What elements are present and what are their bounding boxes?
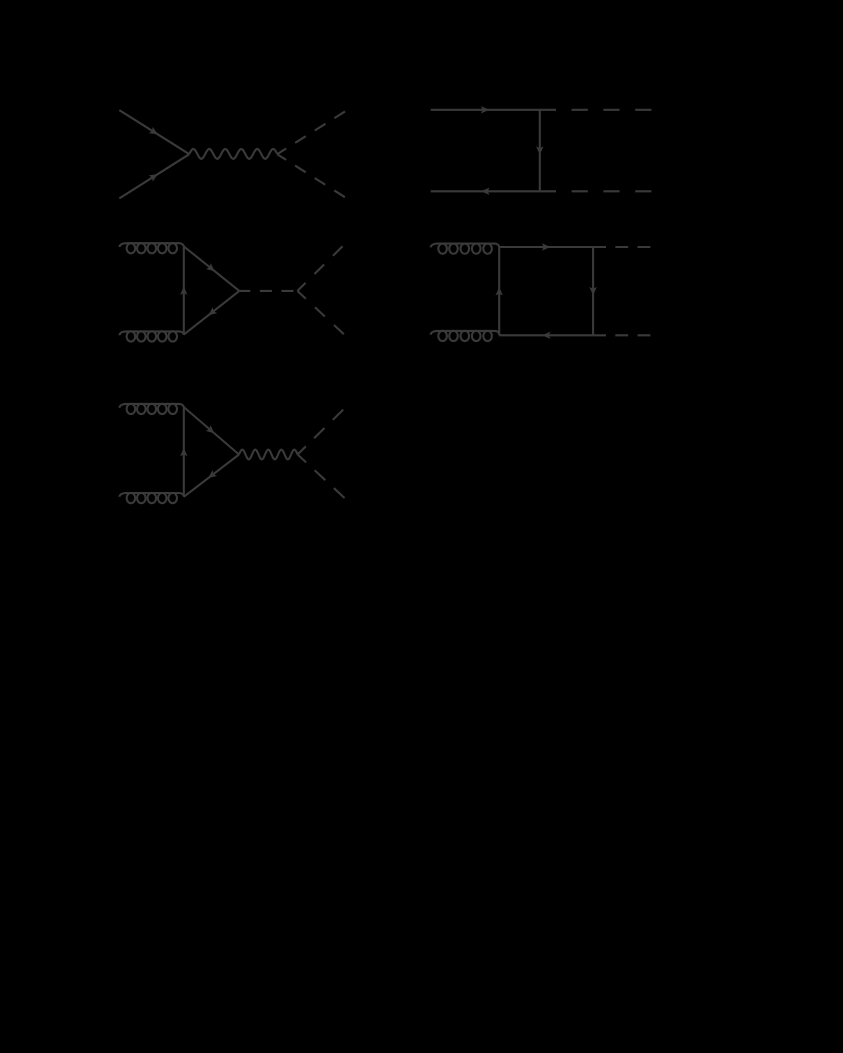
D5 arrow on top loop edge [206, 425, 217, 436]
D4 top gluon [431, 244, 500, 254]
D2 internal fermion vertical [539, 110, 541, 192]
D1 incoming fermion top [119, 110, 189, 154]
D4 dashed scalar top [593, 246, 651, 248]
D3 dashed Higgs propagator [239, 290, 297, 292]
D5 arrow on bottom loop edge [206, 470, 217, 481]
D5 top gluon [120, 404, 184, 414]
D4 box bottom quark line [499, 334, 593, 336]
D4 dashed scalar bottom [593, 334, 651, 336]
D4 bottom gluon [431, 331, 500, 341]
D3 arrow on bottom loop edge [206, 307, 217, 318]
D4 box left quark line [498, 247, 500, 335]
D3 quark loop top edge [184, 246, 240, 291]
D5 dashed scalar upper-right [298, 406, 347, 455]
D5 bottom gluon [120, 493, 184, 503]
D3 arrow on vertical quark line [180, 287, 187, 295]
D2 top incoming fermion [431, 109, 540, 111]
D5 dashed scalar lower-right [298, 455, 347, 500]
D2 dashed scalar top [540, 109, 652, 111]
D3 arrow on top loop edge [206, 263, 217, 274]
D4 arrow on right vertical [589, 287, 596, 295]
D3 top gluon [120, 243, 184, 253]
D4 arrow on left vertical [496, 287, 503, 295]
D5 quark loop top edge [184, 407, 239, 455]
D1 dashed scalar lower-right [277, 154, 347, 198]
D5 quark loop vertical [183, 407, 185, 497]
D4 box right quark line [592, 247, 594, 335]
D4 arrow on bottom quark line [542, 332, 550, 339]
D2 dashed scalar bottom [540, 190, 652, 192]
D2 bottom incoming fermion [431, 190, 540, 192]
D1 incoming fermion bottom [119, 154, 189, 198]
D1 arrow on bottom incoming fermion [149, 171, 160, 182]
D3 bottom gluon [120, 331, 184, 341]
D3 quark loop bottom edge [184, 291, 240, 335]
D2 arrow on vertical fermion [536, 146, 543, 154]
D2 arrow on bottom fermion [481, 188, 489, 195]
D5 arrow on vertical quark line [180, 448, 187, 456]
D4 arrow on top quark line [542, 243, 550, 250]
D5 wavy boson propagator [239, 450, 298, 460]
D1 wavy boson propagator [189, 149, 277, 159]
D3 dashed scalar lower-right [297, 291, 346, 336]
D1 dashed scalar upper-right [277, 110, 347, 154]
D1 arrow on top incoming fermion [149, 127, 160, 138]
D2 arrow on top fermion [481, 106, 489, 113]
D3 quark loop vertical [183, 246, 185, 334]
D4 box top quark line [499, 246, 593, 248]
D3 dashed scalar upper-right [297, 243, 346, 291]
D5 quark loop bottom edge [184, 455, 239, 497]
